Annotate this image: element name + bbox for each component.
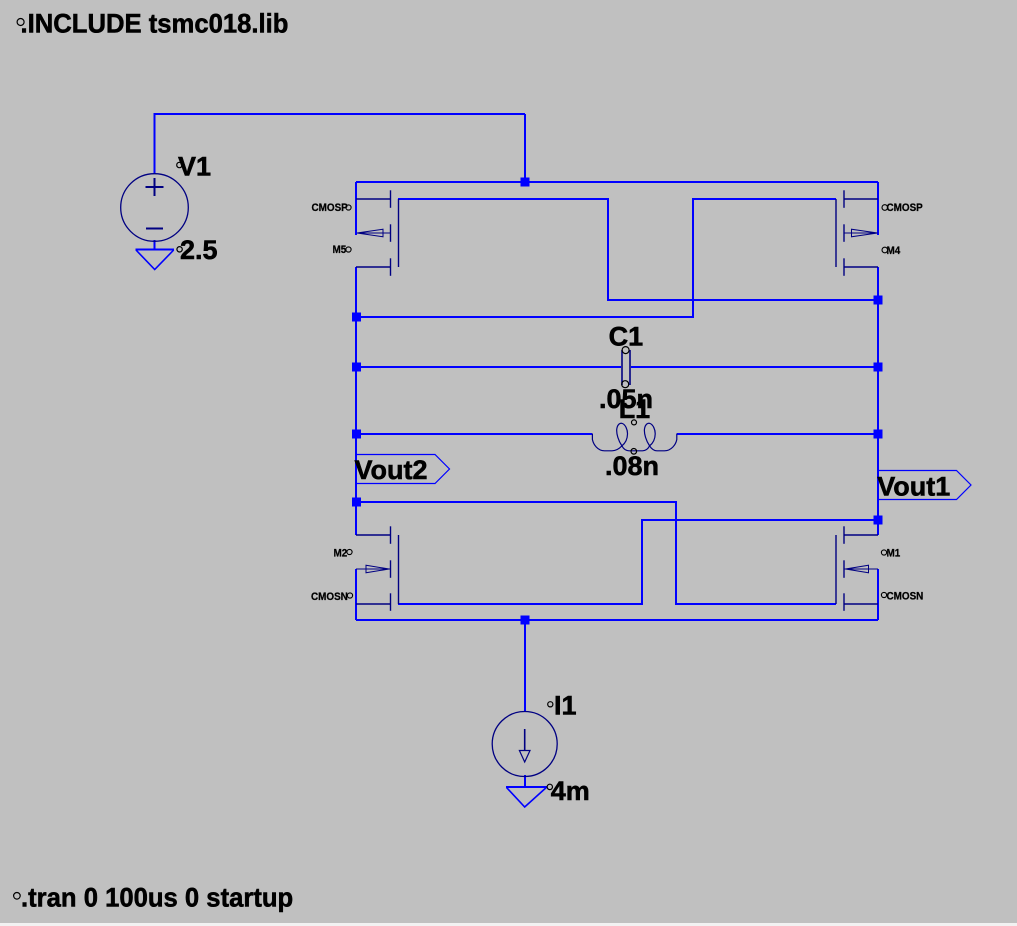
wire L1 row right (677, 433, 878, 435)
node junction left rail y502 (352, 498, 361, 507)
marker C1 top (622, 347, 629, 354)
node junction left rail y367 (352, 363, 361, 372)
wire I1 top (524, 620, 526, 712)
ground below V1 (136, 250, 175, 270)
transistor M1 nmos body (836, 526, 878, 611)
bottom window edge strip (0, 923, 1017, 926)
svg-text:CMOSP: CMOSP (887, 203, 923, 215)
transistor M4 bulk arrow (844, 229, 878, 237)
wire right rail node Vout1 (877, 267, 879, 535)
wire M2 source leg (355, 569, 357, 620)
marker M5 (346, 247, 351, 252)
svg-text:I1: I1 (554, 691, 577, 721)
wire M1 drain to M2 gate (398, 520, 878, 604)
marker CMOSN right (881, 592, 886, 597)
node junction right rail y367 (874, 363, 883, 372)
wire M4 source stub (877, 182, 879, 235)
svg-text:4m: 4m (551, 776, 590, 806)
transistor M4 pmos body (836, 190, 878, 275)
node junction right rail y434 (874, 430, 883, 439)
wire V1 minus to ground (154, 240, 156, 250)
wire bottom rail (356, 619, 878, 621)
svg-text:M4: M4 (887, 246, 901, 258)
marker 2.5 anchor (177, 247, 182, 252)
wire top rail (356, 181, 878, 183)
voltage source V1 body (121, 174, 189, 242)
current source I1 body (492, 712, 557, 777)
marker CMOSP right (882, 205, 888, 211)
marker M1 (881, 550, 886, 555)
marker CMOSP left (346, 205, 351, 210)
flag Vout2 (356, 455, 449, 484)
node junction bottom rail (521, 616, 530, 625)
svg-text:CMOSN: CMOSN (887, 591, 924, 603)
marker V1 anchor (177, 162, 182, 167)
wire C1 row right (631, 366, 878, 368)
svg-text:CMOSP: CMOSP (312, 203, 348, 215)
svg-text:M2: M2 (334, 548, 348, 560)
wire I1 bottom to ground (524, 775, 526, 787)
svg-text:Vout2: Vout2 (355, 455, 428, 485)
svg-text:CMOSN: CMOSN (311, 592, 348, 604)
wire left rail node Vout2 (355, 267, 357, 535)
marker CMOSN left (347, 593, 352, 598)
capacitor C1 plates (622, 350, 630, 385)
marker L1 bottom (631, 449, 637, 455)
svg-text:.INCLUDE tsmc018.lib: .INCLUDE tsmc018.lib (21, 8, 289, 39)
node junction left rail y317 (352, 313, 361, 322)
wire M5 gate to M4 drain (398, 199, 878, 300)
wire C1 row left (356, 366, 621, 368)
transistor M5 bulk arrow (357, 229, 391, 237)
svg-text:M5: M5 (333, 245, 347, 257)
wire M1 source leg (877, 569, 879, 620)
node junction left rail y434 (352, 430, 361, 439)
transistor M2 nmos body (356, 526, 399, 611)
marker M2 (347, 549, 352, 554)
marker C1 bottom (622, 381, 629, 388)
wire L1 row left (356, 433, 592, 435)
svg-text:.08n: .08n (605, 451, 659, 481)
marker 4m anchor (547, 784, 552, 789)
svg-text:2.5: 2.5 (180, 235, 218, 265)
transistor M2 bulk arrow (356, 565, 391, 573)
node junction VDD top (521, 178, 530, 187)
node junction right rail y520 (874, 516, 883, 525)
marker tran anchor (14, 893, 21, 900)
node junction right rail y300 (874, 296, 883, 305)
svg-text:.tran 0 100us 0 startup: .tran 0 100us 0 startup (21, 882, 293, 913)
marker M4 (882, 247, 888, 253)
svg-text:Vout1: Vout1 (877, 472, 950, 502)
marker L1 top (632, 420, 637, 425)
svg-text:M1: M1 (887, 548, 901, 560)
wire V1 vertical drop to V1 plus (154, 113, 156, 174)
wire VDD drop to top rail (524, 114, 526, 182)
transistor M5 pmos body (356, 190, 399, 275)
wire M4 gate to M5 drain (356, 199, 836, 317)
wire M5 source stub (355, 182, 357, 235)
flag Vout1 (878, 471, 971, 500)
marker I1 anchor (548, 702, 553, 707)
ground below I1 (506, 787, 547, 807)
marker include anchor (17, 19, 24, 26)
inductor L1 coil (592, 423, 676, 451)
svg-text:V1: V1 (178, 151, 211, 181)
transistor M1 bulk arrow (845, 565, 879, 573)
wire M2 drain to M1 gate (356, 502, 836, 604)
wire V1 top horizontal to node VDD (154, 113, 526, 115)
